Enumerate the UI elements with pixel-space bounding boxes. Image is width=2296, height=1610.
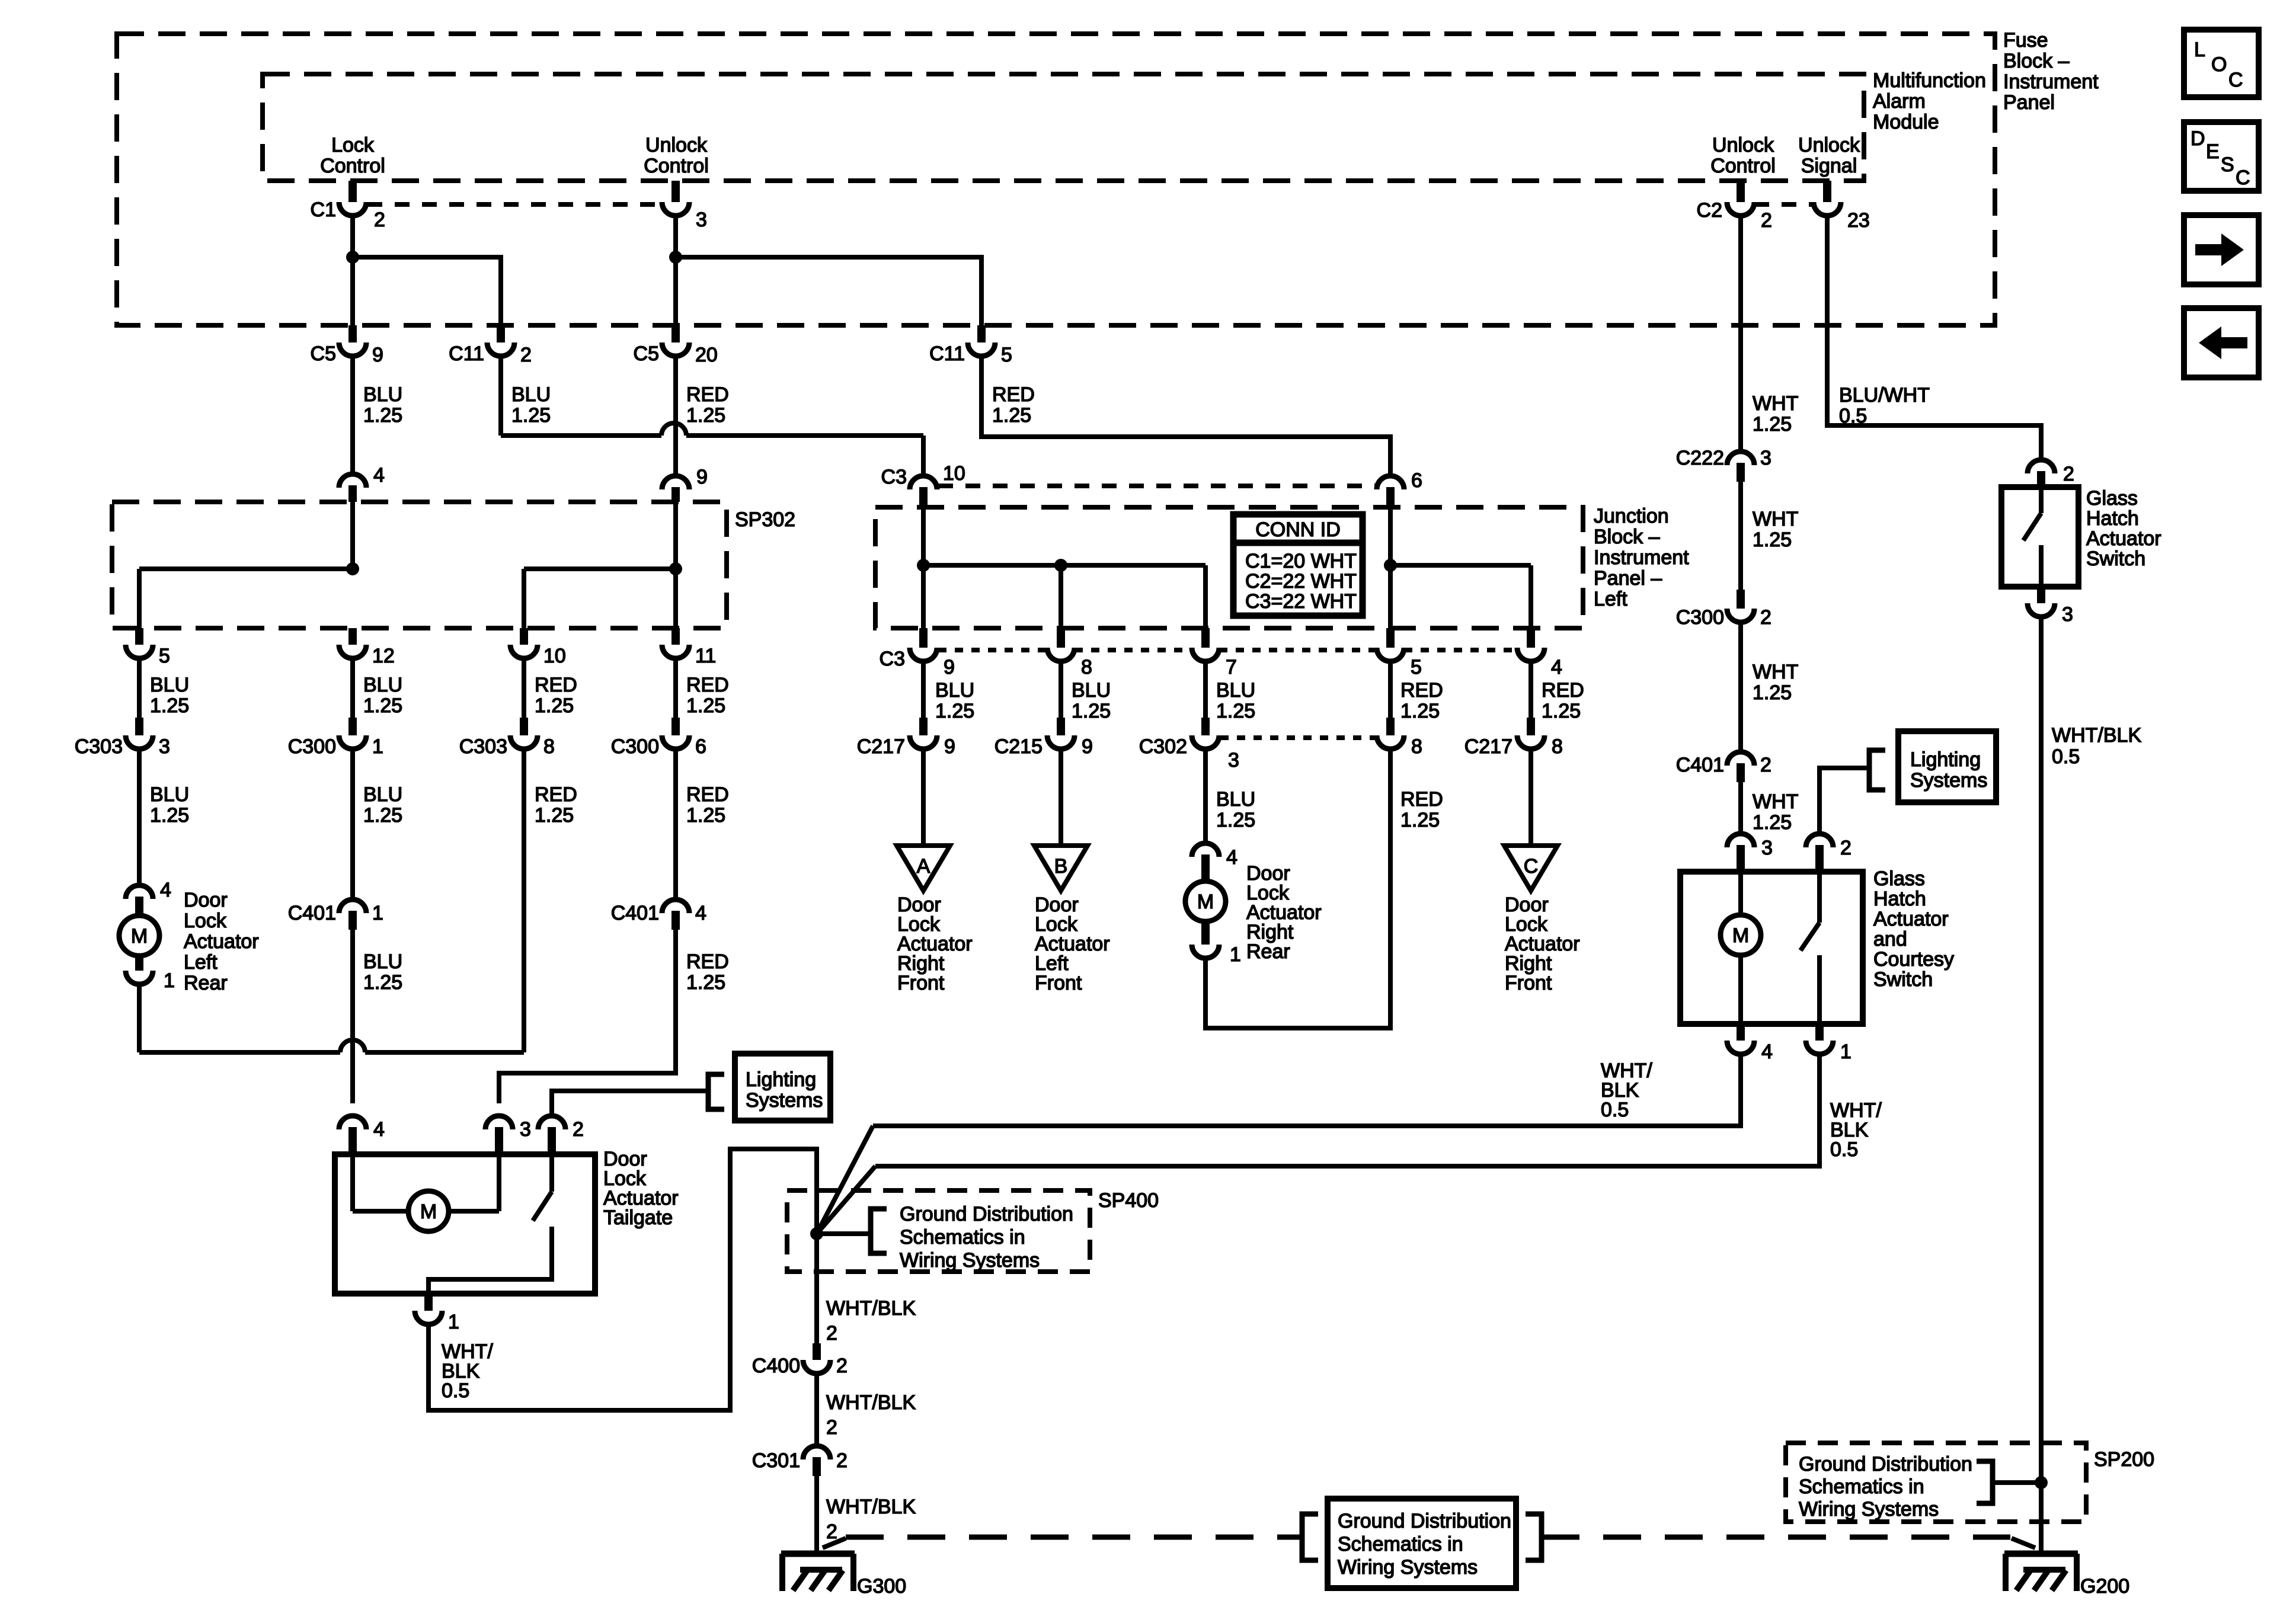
svg-text:5: 5 (1001, 344, 1012, 366)
svg-text:Hatch: Hatch (2086, 507, 2139, 530)
svg-text:WHT/BLK: WHT/BLK (826, 1391, 916, 1414)
svg-text:C1=20 WHT: C1=20 WHT (1245, 550, 1357, 572)
svg-text:8: 8 (1552, 735, 1563, 758)
svg-text:2: 2 (826, 1521, 837, 1543)
wire unlock branch to C11-5 (676, 257, 981, 325)
door lock actuator left rear pin 4 (126, 885, 153, 899)
svg-text:9: 9 (372, 344, 383, 366)
svg-text:1.25: 1.25 (992, 404, 1031, 427)
svg-text:Module: Module (1873, 111, 1939, 133)
svg-text:BLU: BLU (935, 679, 974, 702)
svg-text:12: 12 (372, 645, 395, 667)
courtesy switch connector pin 4 (1737, 1024, 1745, 1041)
svg-text:RED: RED (686, 383, 729, 406)
svg-text:1: 1 (1840, 1041, 1851, 1063)
off-page triangle B (1034, 846, 1088, 891)
svg-text:7: 7 (1226, 656, 1237, 678)
svg-text:2: 2 (1761, 209, 1772, 232)
connector C222 pin 3 (1727, 452, 1754, 465)
svg-text:C11: C11 (449, 343, 484, 365)
svg-text:Left: Left (184, 951, 218, 974)
tailgate connector pin 3 (485, 1116, 513, 1129)
svg-text:4: 4 (695, 902, 706, 924)
courtesy switch connector pin 1 (1815, 1024, 1824, 1041)
wire C401-1 to tailgate pin 4 (350, 930, 355, 1103)
svg-text:M: M (131, 925, 148, 948)
svg-text:2: 2 (1840, 837, 1851, 859)
svg-text:Ground Distribution: Ground Distribution (1799, 1453, 1972, 1475)
svg-text:WHT: WHT (1753, 661, 1798, 683)
svg-text:C303: C303 (459, 735, 507, 758)
svg-text:SP302: SP302 (735, 508, 795, 531)
svg-text:2: 2 (2063, 463, 2074, 485)
svg-text:BLU/WHT: BLU/WHT (1839, 384, 1930, 406)
wire C301 to G300 (814, 1476, 819, 1555)
wire C401-2 to courtesy switch pin 3 (1738, 782, 1743, 834)
svg-text:BLU: BLU (150, 783, 189, 806)
connector C215 pin 9 (1057, 718, 1065, 735)
svg-text:Schematics in: Schematics in (900, 1226, 1025, 1249)
connector C300 pin 2 (1737, 590, 1745, 609)
SP302 internal wires (350, 502, 355, 569)
svg-text:C3=22 WHT: C3=22 WHT (1245, 590, 1357, 613)
dotted link C302-3 to C302-8 (1220, 735, 1376, 740)
connector SP302 pin 12 (348, 628, 357, 645)
svg-text:8: 8 (1411, 735, 1422, 758)
svg-text:3: 3 (2062, 603, 2073, 626)
svg-text:BLU: BLU (1216, 679, 1255, 702)
svg-text:C3: C3 (880, 648, 905, 670)
SP302 dashed box (112, 502, 727, 628)
svg-text:Courtesy: Courtesy (1873, 948, 1954, 971)
svg-text:4: 4 (1761, 1041, 1773, 1063)
wire C303-3 to left rear actuator (137, 751, 142, 886)
connector C11 pin 2 (497, 325, 505, 343)
svg-text:Glass: Glass (2086, 487, 2138, 510)
connector C3 pin 9 (919, 628, 928, 648)
wire lock branch to C11-2 (353, 257, 501, 325)
svg-text:3: 3 (520, 1118, 531, 1141)
svg-text:A: A (917, 855, 930, 878)
svg-text:2: 2 (836, 1449, 848, 1472)
junction block dashed box (875, 507, 1583, 628)
svg-text:4: 4 (1226, 846, 1237, 869)
wire C3-9 to C217-9 (921, 663, 926, 720)
svg-text:11: 11 (695, 645, 716, 667)
svg-text:1.25: 1.25 (150, 694, 189, 717)
svg-text:1.25: 1.25 (535, 694, 574, 717)
svg-text:C: C (2228, 69, 2243, 91)
wire C300-1 to C401-1 (350, 751, 355, 900)
svg-text:4: 4 (160, 879, 171, 901)
svg-text:BLU: BLU (150, 674, 189, 696)
svg-text:RED: RED (686, 950, 729, 973)
svg-text:1.25: 1.25 (535, 804, 574, 827)
LOC legend box (2184, 30, 2259, 97)
svg-text:1: 1 (1230, 943, 1241, 966)
svg-text:C: C (1524, 855, 1539, 878)
wire C400 to C301 (814, 1375, 819, 1446)
svg-text:Glass: Glass (1873, 868, 1925, 890)
lighting systems box right (1898, 731, 1996, 802)
svg-text:5: 5 (159, 645, 170, 667)
svg-text:C401: C401 (1676, 754, 1724, 776)
svg-text:0.5: 0.5 (2052, 745, 2080, 768)
connector C300 pin 6 (671, 718, 680, 735)
svg-text:6: 6 (1411, 469, 1422, 492)
lighting systems box left (735, 1054, 830, 1121)
svg-text:Block –: Block – (1594, 526, 1660, 548)
junction internal wires (921, 507, 926, 628)
svg-text:C401: C401 (288, 902, 336, 924)
connector C3 pin 5 (1386, 628, 1395, 648)
connector C1 pin 2 (348, 181, 357, 202)
svg-text:Wiring Systems: Wiring Systems (1338, 1556, 1478, 1579)
connector SP302 pin 9 (662, 476, 689, 489)
svg-text:0.5: 0.5 (1601, 1099, 1629, 1121)
svg-text:1: 1 (372, 735, 383, 758)
wire C2-23 to glass hatch switch (1827, 217, 2041, 460)
svg-text:1: 1 (448, 1311, 459, 1333)
dotted link across C3 row (938, 648, 1047, 652)
svg-text:Front: Front (1035, 972, 1082, 994)
connector C301 pin 2 (803, 1446, 830, 1459)
ground dashed line left segment (846, 1535, 1302, 1540)
splice SP200 node (2035, 1476, 2048, 1489)
svg-text:C: C (2236, 167, 2250, 189)
node lock branch (346, 251, 359, 264)
svg-text:BLU: BLU (1216, 788, 1255, 811)
svg-text:Control: Control (1710, 155, 1776, 177)
svg-text:Signal: Signal (1801, 155, 1857, 177)
svg-text:2: 2 (374, 209, 385, 231)
wire courtesy pin 2 to lighting systems (1819, 768, 1869, 832)
svg-text:3: 3 (1761, 837, 1773, 859)
svg-text:1.25: 1.25 (363, 804, 402, 827)
svg-text:RED: RED (535, 783, 577, 806)
svg-text:4: 4 (373, 1118, 385, 1141)
tailgate connector pin 1 (424, 1294, 433, 1311)
svg-text:BLU: BLU (1072, 679, 1111, 702)
wire BLU C11-2 to junction C3-10 (498, 357, 503, 436)
svg-text:C1: C1 (311, 199, 336, 221)
wire C300-2 to C401-2 (1738, 624, 1743, 753)
motor M tailgate (408, 1191, 449, 1231)
connector C401 pin 2 (1727, 752, 1754, 766)
svg-text:Schematics in: Schematics in (1338, 1533, 1463, 1555)
door lock actuator tailgate box (335, 1154, 595, 1294)
svg-text:C2: C2 (1697, 199, 1722, 222)
back arrow legend box (2184, 308, 2259, 377)
svg-text:5: 5 (1411, 656, 1422, 678)
svg-text:B: B (1054, 855, 1068, 878)
ground distribution bracket left (1302, 1514, 1318, 1560)
connector C1 pin 3 (671, 181, 680, 202)
svg-text:WHT/BLK: WHT/BLK (826, 1297, 916, 1320)
svg-text:0.5: 0.5 (1839, 405, 1867, 427)
svg-text:0.5: 0.5 (1830, 1138, 1858, 1161)
wire C303-8 down (522, 751, 526, 1052)
svg-text:C401: C401 (611, 902, 659, 924)
wire SP200 bracket to splice (1993, 1480, 2041, 1485)
ground distribution bracket SP400 (871, 1209, 887, 1253)
svg-text:Rear: Rear (184, 972, 228, 994)
connector C2 pin 2 (1737, 181, 1745, 202)
svg-text:Schematics in: Schematics in (1799, 1475, 1924, 1498)
DESC legend box (2184, 122, 2259, 191)
wire left rear pin1 to C303-8 wire (137, 985, 142, 1052)
wire courtesy pin 4 to splice (873, 1056, 1741, 1126)
wire C302-3 to right rear actuator (1203, 751, 1208, 844)
svg-text:BLU: BLU (363, 383, 402, 406)
lighting systems bracket right (1869, 750, 1885, 790)
connector SP302 pin 10 (520, 628, 528, 645)
svg-text:D: D (2191, 127, 2205, 150)
motor M right rear (1185, 881, 1226, 921)
tailgate switch (549, 1154, 554, 1192)
connector C5 pin 9 (348, 325, 357, 343)
splice diagonal to courtesy switch pin 4 wire (817, 1126, 873, 1234)
svg-text:8: 8 (543, 735, 555, 758)
connector C11 pin 5 (977, 325, 986, 343)
wire hop over C401-1 wire (340, 1040, 365, 1052)
svg-text:RED: RED (535, 674, 577, 696)
svg-text:Lighting: Lighting (1910, 748, 1981, 771)
svg-text:1.25: 1.25 (686, 694, 725, 717)
connector C302 pin 3 (1201, 718, 1210, 735)
wire C2-2 down to C222 (1738, 217, 1743, 451)
connector C217 pin 9 (919, 718, 928, 735)
svg-text:M: M (1197, 891, 1214, 913)
door lock actuator left rear pin 1 (126, 971, 153, 984)
svg-text:1.25: 1.25 (1216, 809, 1255, 831)
svg-text:C5: C5 (634, 343, 659, 365)
door lock actuator right rear pin 4 (1192, 843, 1219, 857)
svg-text:Block –: Block – (2003, 50, 2070, 72)
svg-text:G300: G300 (857, 1575, 906, 1598)
ground dashed jog at G300 (823, 1538, 846, 1548)
connector C303 pin 8 (520, 718, 528, 735)
wire tailgate pin 2 to lighting systems (552, 1091, 708, 1114)
svg-text:Rear: Rear (1246, 940, 1290, 963)
svg-text:Control: Control (320, 155, 385, 177)
svg-text:3: 3 (1760, 447, 1771, 469)
svg-text:10: 10 (543, 645, 566, 667)
svg-text:Ground Distribution: Ground Distribution (1338, 1510, 1511, 1532)
motor M glass hatch (1721, 915, 1761, 955)
wire courtesy pin 1 to splice (875, 1056, 1819, 1166)
connector C3 pin 7 (1201, 628, 1210, 648)
tailgate connector pin 4 (339, 1116, 366, 1129)
svg-text:2: 2 (520, 344, 532, 366)
svg-text:Alarm: Alarm (1873, 90, 1926, 113)
svg-text:Left: Left (1594, 588, 1627, 610)
svg-text:4: 4 (373, 464, 385, 486)
svg-text:1: 1 (372, 902, 383, 924)
svg-text:Unlock: Unlock (645, 134, 708, 156)
svg-text:6: 6 (695, 735, 706, 758)
glass hatch actuator and courtesy switch box (1680, 872, 1863, 1024)
svg-text:10: 10 (943, 462, 965, 485)
svg-text:Lock: Lock (184, 910, 227, 932)
svg-text:1.25: 1.25 (1400, 809, 1440, 831)
wire pin11 to C300-6 (673, 660, 678, 720)
svg-text:Wiring Systems: Wiring Systems (900, 1249, 1040, 1272)
svg-text:M: M (420, 1201, 437, 1223)
svg-text:and: and (1873, 928, 1907, 950)
CONN ID box (1233, 514, 1363, 616)
svg-text:M: M (1732, 924, 1749, 947)
svg-text:Ground Distribution: Ground Distribution (900, 1203, 1073, 1225)
svg-text:Instrument: Instrument (1594, 546, 1689, 569)
SP400 dashed box (787, 1190, 1090, 1272)
svg-text:23: 23 (1847, 209, 1870, 232)
connector SP302 pin 5 (135, 628, 143, 645)
svg-text:Front: Front (897, 972, 945, 994)
svg-text:Lock: Lock (331, 134, 375, 156)
ground distribution bracket SP200 (1977, 1461, 1993, 1503)
svg-text:SP200: SP200 (2094, 1448, 2154, 1471)
svg-text:1.25: 1.25 (1753, 529, 1792, 551)
svg-text:Control: Control (644, 155, 709, 177)
dotted link C2-2 to C2-23 (1754, 202, 1814, 207)
door lock actuator right rear pin 1 (1192, 945, 1219, 958)
courtesy switch connector pin 3 (1727, 834, 1754, 847)
wire splice down to C400 (814, 1234, 819, 1346)
svg-text:Wiring Systems: Wiring Systems (1799, 1498, 1939, 1521)
lighting systems bracket left (708, 1074, 724, 1109)
svg-text:9: 9 (944, 656, 955, 678)
svg-text:C400: C400 (752, 1355, 800, 1377)
svg-text:C300: C300 (288, 735, 336, 758)
svg-text:C301: C301 (752, 1449, 800, 1472)
svg-text:RED: RED (1400, 679, 1443, 702)
motor M left rear (119, 916, 159, 956)
svg-text:C300: C300 (1676, 606, 1724, 629)
connector C300 pin 1 (348, 718, 357, 735)
svg-text:Unlock: Unlock (1798, 134, 1860, 156)
svg-text:9: 9 (944, 735, 955, 758)
connector C2 pin 23 (1823, 181, 1831, 202)
courtesy switch contacts (1817, 872, 1822, 923)
wire C217-8 to C (1528, 751, 1533, 846)
node unlock branch (669, 251, 682, 264)
wire C300-6 to C401-4 (673, 751, 678, 900)
ground dashed line right segment (1542, 1535, 2010, 1540)
wire RED C5-20 to SP302 pin 9 (673, 357, 678, 474)
svg-text:Panel: Panel (2003, 91, 2055, 114)
connector C3 pin 4 (1527, 628, 1535, 648)
svg-text:1.25: 1.25 (150, 804, 189, 827)
svg-text:4: 4 (1551, 656, 1562, 678)
connector C5 pin 20 (671, 325, 680, 343)
ground distribution bracket right (1526, 1514, 1542, 1560)
wire hop over unlock wire (661, 423, 686, 436)
svg-text:C302: C302 (1139, 735, 1187, 758)
svg-text:CONN ID: CONN ID (1255, 518, 1341, 541)
fuse block - instrument panel dashed box (117, 34, 1995, 325)
svg-text:9: 9 (696, 466, 708, 488)
glass hatch switch connector pin 2 (2028, 460, 2055, 473)
svg-text:1: 1 (164, 969, 175, 992)
connector C400 pin 2 (813, 1343, 821, 1360)
svg-text:Lighting: Lighting (746, 1068, 816, 1091)
svg-text:L: L (2194, 39, 2205, 61)
svg-text:C2=22 WHT: C2=22 WHT (1245, 570, 1357, 593)
svg-text:BLU: BLU (363, 950, 402, 973)
svg-text:C303: C303 (75, 735, 123, 758)
wire pin12 to C300-1 (350, 660, 355, 720)
off-page triangle A (897, 846, 950, 891)
svg-text:Front: Front (1505, 972, 1552, 994)
svg-text:Systems: Systems (1910, 769, 1987, 792)
forward arrow legend box (2184, 215, 2259, 284)
svg-text:1.25: 1.25 (1753, 413, 1792, 436)
ground distribution schematics box (1328, 1499, 1516, 1588)
svg-text:SP400: SP400 (1098, 1189, 1159, 1212)
svg-text:1.25: 1.25 (1216, 700, 1255, 722)
svg-text:C11: C11 (929, 343, 965, 365)
svg-text:Tailgate: Tailgate (603, 1206, 673, 1229)
svg-text:2: 2 (1760, 606, 1771, 629)
svg-text:2: 2 (826, 1416, 837, 1439)
svg-text:1.25: 1.25 (363, 971, 402, 994)
svg-text:Instrument: Instrument (2003, 71, 2099, 93)
svg-text:WHT: WHT (1753, 508, 1798, 530)
svg-text:RED: RED (1542, 679, 1584, 702)
svg-text:1.25: 1.25 (1542, 700, 1581, 722)
connector C302 pin 8 (1386, 718, 1395, 735)
multifunction alarm module dashed box (263, 74, 1864, 181)
svg-text:9: 9 (1082, 735, 1093, 758)
svg-text:G200: G200 (2080, 1575, 2129, 1598)
svg-text:C222: C222 (1676, 447, 1724, 469)
wire tailgate pin1 to SP400 splice (428, 1149, 817, 1410)
svg-text:O: O (2211, 53, 2227, 76)
wire C3-7 to C302-3 (1203, 663, 1208, 720)
wire C3-8 to C215-9 (1059, 663, 1063, 720)
dotted link C1-2 to C1-3 (367, 202, 661, 207)
wire C401-4 to tailgate pin 3 (499, 930, 676, 1103)
svg-text:RED: RED (686, 783, 729, 806)
tailgate connector pin 2 (538, 1116, 565, 1129)
svg-text:Systems: Systems (746, 1089, 823, 1112)
courtesy motor wires (1738, 872, 1743, 915)
svg-text:3: 3 (696, 209, 707, 231)
wire pin10 to C303-8 (522, 660, 526, 720)
svg-text:1.25: 1.25 (686, 404, 725, 427)
off-page triangle C (1504, 846, 1558, 891)
connector C3 pin 8 (1057, 628, 1065, 648)
svg-text:C215: C215 (994, 735, 1043, 758)
svg-text:2: 2 (826, 1322, 837, 1345)
svg-text:Actuator: Actuator (1873, 908, 1949, 930)
svg-text:Panel –: Panel – (1594, 567, 1662, 590)
glass hatch switch connector pin 3 (2037, 587, 2045, 603)
svg-text:1.25: 1.25 (1753, 681, 1792, 704)
svg-text:C3: C3 (881, 466, 907, 488)
svg-text:BLU: BLU (363, 674, 402, 696)
connector C303 pin 3 (135, 718, 143, 735)
splice diagonal to courtesy switch pin 1 wire (817, 1166, 875, 1234)
wire right rear pin 1 to C302-8 wire (1205, 751, 1390, 1028)
wire C3-4 to C217-8 (1528, 663, 1533, 720)
svg-text:C5: C5 (311, 343, 336, 365)
connector C217 pin 8 (1527, 718, 1535, 735)
connector C401 pin 1 (339, 900, 366, 913)
svg-text:Switch: Switch (1873, 968, 1933, 991)
svg-text:Multifunction: Multifunction (1873, 69, 1986, 92)
